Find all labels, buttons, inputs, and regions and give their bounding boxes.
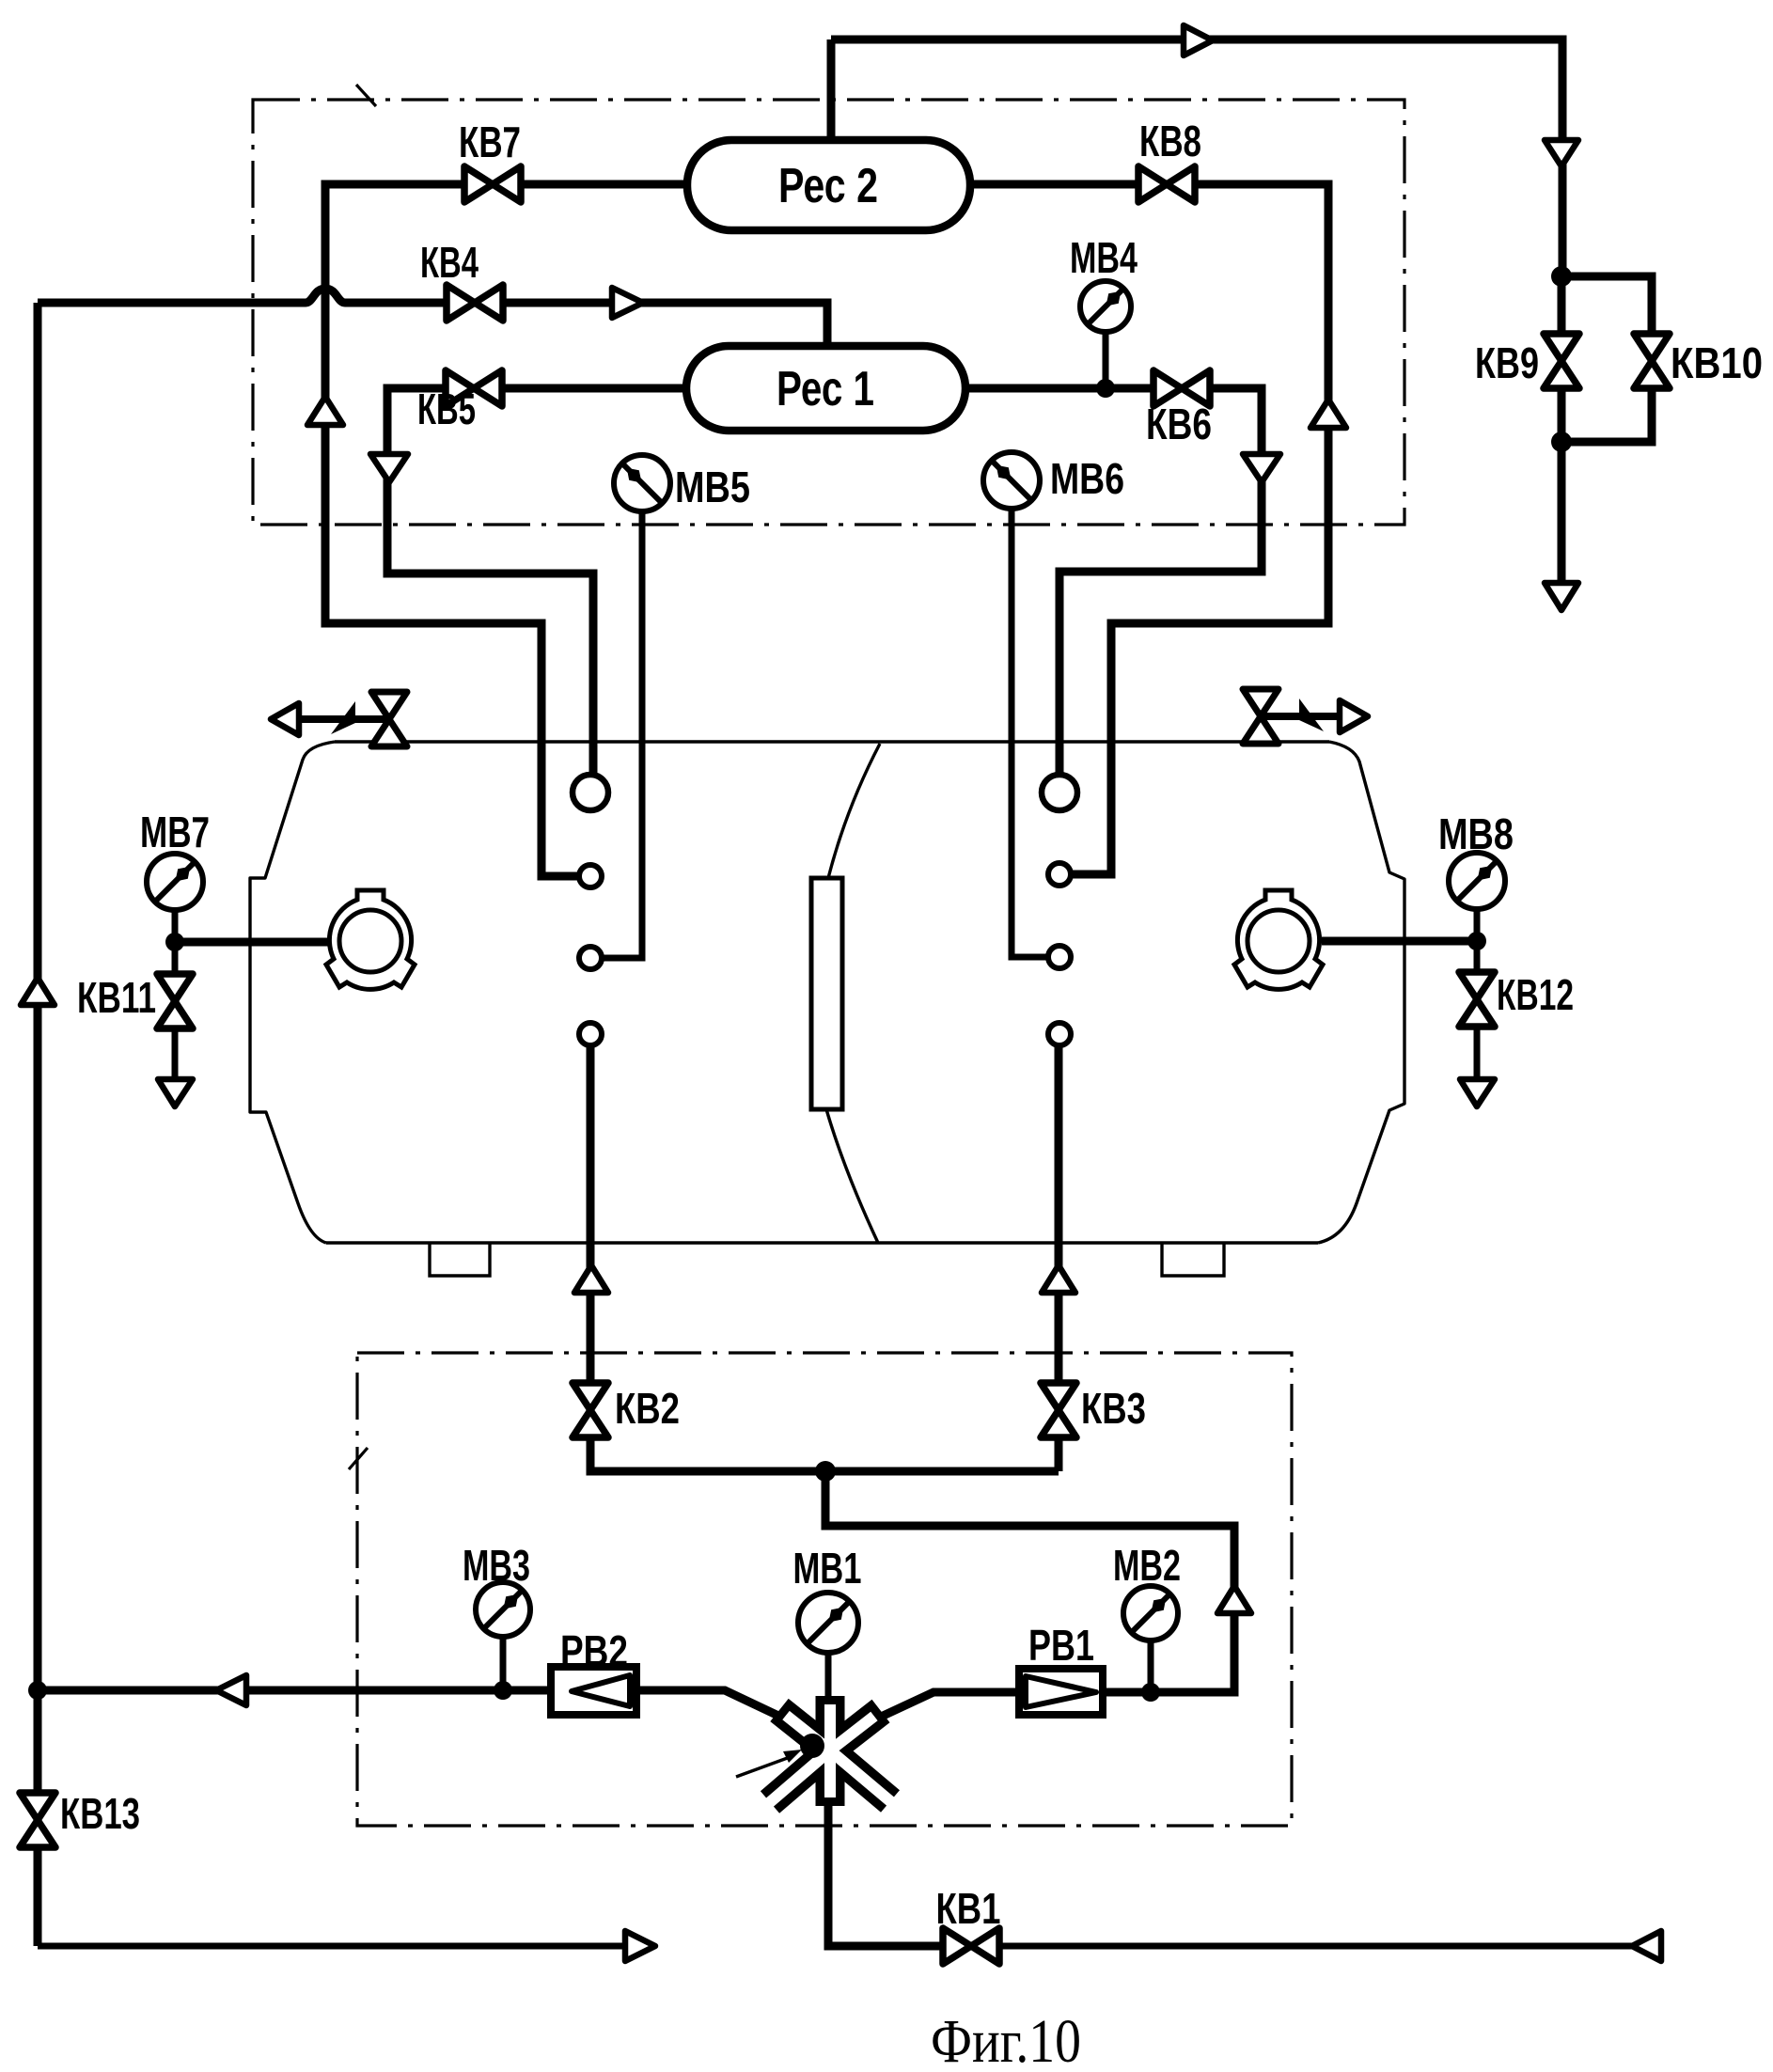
port small right 3 <box>1048 1023 1071 1045</box>
wire KB6 line into right tank big port <box>963 388 1262 777</box>
junction node MB7 <box>165 933 184 951</box>
svg-text:КВ3: КВ3 <box>1081 1384 1146 1433</box>
wire right main down to KB9 junction <box>1558 276 1566 335</box>
gauge MB7 <box>147 854 203 910</box>
gauge MB6 <box>983 452 1040 509</box>
gauge MB1 <box>798 1593 858 1653</box>
flow arrow up on KB7 drop <box>307 397 343 425</box>
valve KB6 <box>1153 370 1210 406</box>
svg-text:РВ2: РВ2 <box>560 1626 628 1675</box>
svg-text:КВ2: КВ2 <box>615 1384 680 1433</box>
wire MB6 stem <box>1012 508 1047 957</box>
flow arrow up on PB1 riser <box>1217 1586 1251 1613</box>
dash-dot boundary bottom box <box>357 1353 1292 1826</box>
svg-text:Фиг.10: Фиг.10 <box>931 2007 1081 2072</box>
leader arrow to star <box>736 1750 802 1777</box>
port small right 1 <box>1048 863 1071 886</box>
wire junction down to distributor loop <box>825 1471 1234 1692</box>
wire KB7 line into left tank port <box>325 184 694 876</box>
tank right foot <box>1162 1243 1224 1276</box>
wire reservoir 2 stem <box>827 39 836 143</box>
wire MB8 stem <box>1474 909 1481 941</box>
port small left 2 <box>579 947 602 969</box>
valve KB8 <box>1138 166 1195 202</box>
tank left foot <box>430 1243 490 1276</box>
distributor star center dot <box>800 1734 824 1758</box>
svg-text:МВ1: МВ1 <box>793 1544 862 1593</box>
svg-text:КВ13: КВ13 <box>60 1789 140 1838</box>
svg-text:МВ4: МВ4 <box>1070 233 1138 282</box>
wire MB3 stem <box>500 1637 507 1690</box>
svg-text:КВ5: КВ5 <box>417 385 476 433</box>
svg-text:РВ1: РВ1 <box>1028 1621 1094 1670</box>
gauge MB3 <box>476 1582 530 1637</box>
terminal arrow KB11 drain <box>158 1079 193 1107</box>
svg-text:МВ5: МВ5 <box>675 463 750 511</box>
flow arrow up on left main <box>21 978 55 1005</box>
junction node right main lower <box>1551 432 1572 452</box>
port big right <box>1042 775 1077 810</box>
svg-text:КВ8: КВ8 <box>1139 117 1201 165</box>
junction node MB3 <box>494 1681 512 1700</box>
svg-text:КВ7: КВ7 <box>459 118 521 166</box>
wire left tank bottom port to KB2 <box>587 1045 595 1383</box>
reservoir Рес 1 <box>686 346 965 431</box>
gauge MB4 <box>1080 281 1131 332</box>
svg-text:Рес 1: Рес 1 <box>777 362 874 416</box>
dash-dot boundary top box <box>253 100 1404 525</box>
wire KB8 line into right tank port <box>965 184 1328 874</box>
valve KB7 <box>464 166 521 202</box>
breather left: arrow <box>271 701 389 735</box>
wire KB12 stem <box>1474 941 1481 974</box>
junction node MB4 <box>1096 379 1115 398</box>
gauge MB8 <box>1449 853 1505 909</box>
wire star bottom to KB1 line <box>828 1803 943 1946</box>
valve KB13 <box>20 1793 55 1847</box>
svg-text:МВ3: МВ3 <box>463 1541 530 1590</box>
break tick on top box edge <box>356 85 376 106</box>
right filler neck <box>1234 890 1323 989</box>
break tick on bottom box edge <box>349 1448 368 1469</box>
wire bottom-left outlet line <box>38 1943 628 1950</box>
valve KB1 <box>943 1928 999 1964</box>
wire MB7 stem <box>172 910 179 942</box>
valve KB3 <box>1041 1383 1076 1437</box>
flow arrow down on right main <box>1545 140 1578 166</box>
reservoir Рес 2 <box>687 140 970 230</box>
wire MB1 stem <box>825 1651 832 1698</box>
wire KB10 branch <box>1561 276 1652 335</box>
wire PB2 to star <box>636 1690 796 1724</box>
svg-text:КВ11: КВ11 <box>77 973 156 1022</box>
gauge MB5 <box>614 455 670 511</box>
valve KB12 <box>1459 972 1495 1027</box>
wire KB2 to junction <box>590 1437 1059 1471</box>
wire right main terminal <box>1558 442 1566 585</box>
port small right 2 <box>1048 946 1071 968</box>
wire KB5 line into left tank big port <box>387 388 689 777</box>
svg-text:КВ12: КВ12 <box>1497 970 1574 1019</box>
wire KB3 to right tank bottom port <box>1055 1045 1063 1383</box>
wire KB9 to bottom junction <box>1558 387 1566 442</box>
wire KB1 outlet line <box>999 1943 1634 1950</box>
svg-text:МВ7: МВ7 <box>140 808 210 856</box>
terminal arrow KB12 drain <box>1460 1079 1495 1107</box>
flow arrow up on KB8 drop <box>1310 400 1346 428</box>
svg-text:КВ10: КВ10 <box>1671 338 1763 387</box>
junction node right main upper <box>1551 266 1572 287</box>
svg-text:КВ6: КВ6 <box>1146 400 1212 448</box>
wire MB2 stem <box>1148 1640 1154 1692</box>
flow arrow left on PB2 line <box>216 1675 246 1705</box>
svg-text:КВ1: КВ1 <box>936 1884 1001 1933</box>
svg-text:Рес 2: Рес 2 <box>778 159 878 213</box>
wire PB2 line to left main <box>38 1687 551 1695</box>
wire left main vertical <box>34 303 42 1946</box>
breather right: valve <box>1243 689 1279 744</box>
port small left 1 <box>579 865 602 887</box>
svg-text:КВ4: КВ4 <box>420 238 479 287</box>
flow arrow up above KB2 <box>574 1265 608 1293</box>
flow arrow up above KB3 <box>1042 1265 1075 1293</box>
wire KB4 line <box>38 289 827 350</box>
terminal arrow right main <box>1545 583 1578 610</box>
check valve PB2 <box>551 1667 636 1715</box>
port small left 3 <box>579 1023 602 1045</box>
wire PB1 to star <box>865 1692 1019 1724</box>
left filler neck <box>326 890 415 989</box>
valve KB9 <box>1544 334 1579 388</box>
junction node left main bottom <box>28 1681 47 1700</box>
terminal arrow KB1 outlet <box>1632 1931 1661 1961</box>
check valve PB1 <box>1019 1669 1103 1715</box>
flow arrow on top line <box>1184 25 1213 55</box>
flow arrow on KB4 line <box>612 288 643 318</box>
junction node bottom center <box>815 1461 836 1482</box>
flow arrow down on KB5 drop <box>370 454 408 482</box>
wire MB4 stem <box>1103 331 1109 388</box>
junction node MB2 <box>1141 1683 1160 1702</box>
distributor star U1 <box>761 1696 900 1813</box>
svg-text:КВ9: КВ9 <box>1475 338 1539 387</box>
svg-text:МВ6: МВ6 <box>1050 454 1124 503</box>
flow arrow down on KB6 drop <box>1243 454 1280 482</box>
breather left: valve <box>371 692 407 746</box>
valve KB2 <box>573 1383 608 1437</box>
valve KB11 <box>157 974 193 1028</box>
tank body outline <box>250 742 1404 1243</box>
svg-text:МВ8: МВ8 <box>1438 809 1514 858</box>
wire MB7 branch to tank neck <box>175 938 331 947</box>
valve KB10 <box>1634 334 1670 388</box>
terminal arrow bottom-left outlet <box>625 1931 655 1961</box>
breather right: arrow <box>1261 699 1368 732</box>
port big left <box>573 775 608 810</box>
svg-text:МВ2: МВ2 <box>1113 1541 1181 1590</box>
junction node MB8 <box>1467 932 1486 950</box>
valve KB5 <box>446 370 502 406</box>
gauge MB2 <box>1123 1586 1178 1640</box>
wire KB11 stem <box>172 942 179 976</box>
wire MB5 stem <box>603 510 642 958</box>
valve KB4 <box>447 285 503 321</box>
tank sight glass <box>811 878 842 1109</box>
wire top supply line <box>831 39 1562 276</box>
wire MB8 branch to tank neck <box>1322 937 1477 946</box>
